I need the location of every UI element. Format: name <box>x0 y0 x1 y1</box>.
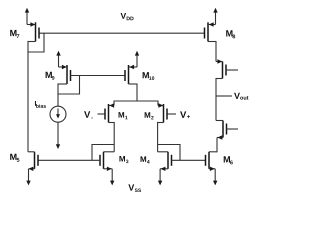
transistor M1 (PMOS input, inverting) <box>98 103 115 122</box>
power VDD arrow at M9 source <box>56 51 60 56</box>
label M5 <box>10 154 19 162</box>
wire: gate bus M4 to M6 <box>172 159 206 161</box>
label M7 <box>10 30 19 38</box>
transistor M9 (PMOS, diode-connected bias mirror) <box>59 55 71 84</box>
wire: M1 drain down to M3 drain <box>109 122 115 124</box>
label M3 <box>119 156 128 163</box>
power VDD arrow at M8 source <box>213 8 217 13</box>
wire: M11 drain down through Vout node to M12 drain <box>216 78 223 80</box>
wire: M9 drain down to Ibias <box>58 83 67 85</box>
input label V- <box>84 111 93 118</box>
transistor M5 (NMOS mirror, bottom-left) <box>28 152 38 181</box>
transistor M4 (NMOS, diode-connected load) <box>158 152 172 181</box>
label M1 <box>119 112 128 119</box>
wire: M3 gate-drain diode loop <box>92 145 114 161</box>
wire: top bus connecting M7 gate to M8 gate <box>40 32 205 34</box>
transistor M2 (PMOS input, non-inverting) <box>158 103 176 122</box>
wire: M2 drain down to M4 drain <box>158 122 164 124</box>
label M8 <box>226 30 235 38</box>
transistor M11 (PMOS cascode in output branch) <box>216 59 238 78</box>
label Vout <box>234 93 248 100</box>
power VSS arrow at M6 source <box>213 181 217 186</box>
label M9 <box>46 72 55 80</box>
transistor M6 (NMOS output mirror, bottom-right) <box>206 152 218 181</box>
wire: gate bus M5 to M3 <box>38 159 100 161</box>
power VDD arrow at M10 source <box>135 51 139 56</box>
label M4 <box>141 156 150 163</box>
transistor M10 (PMOS tail current source) <box>125 55 137 84</box>
input label V+ <box>180 111 190 118</box>
wire: M6 drain up to M12 source <box>216 138 218 153</box>
power VSS arrow below Ibias <box>56 144 60 149</box>
net label VSS <box>128 184 141 192</box>
net label VDD <box>121 13 134 20</box>
wire: M8 drain to M11 source <box>208 41 216 43</box>
power VDD arrow at M7 source <box>25 8 29 13</box>
label M2 <box>145 112 154 119</box>
label M6 <box>224 156 233 164</box>
label Ibias <box>35 101 46 108</box>
wire: M4 gate-drain diode loop <box>158 145 180 161</box>
wire: M9 gate-drain diode loop <box>58 76 80 95</box>
transistor M8 (PMOS second-stage mirror, top-right) <box>205 12 216 42</box>
wire: M7 drain down left rail to M5 drain <box>28 41 36 43</box>
power VSS arrow at M4 source <box>158 181 162 186</box>
wire: M9 gate to M10 gate <box>71 75 126 77</box>
transistor M7 (PMOS, diode-connected, top-left) <box>27 12 39 42</box>
power VSS arrow at M3 source <box>110 181 114 186</box>
wire: M7 gate-drain diode loop <box>28 33 44 52</box>
transistor M3 (NMOS, diode-connected load) <box>100 152 114 181</box>
wire: diff-pair tail node from M10 <box>114 101 158 106</box>
transistor M12 (NMOS cascode in output branch) <box>216 121 238 140</box>
node Vout stub <box>216 95 232 97</box>
power VSS arrow at M5 source <box>26 181 30 186</box>
current source Ibias <box>50 93 66 144</box>
wire: M10 drain to diff-pair tail node <box>129 83 138 85</box>
label M10 <box>143 72 155 80</box>
